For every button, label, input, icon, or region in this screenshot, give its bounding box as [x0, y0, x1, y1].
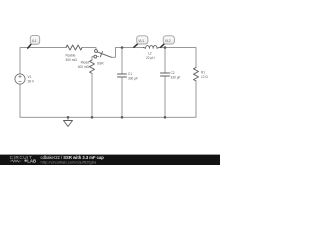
svg-text:Rcable: Rcable	[66, 54, 76, 58]
wire top left from V1 to Rcable	[20, 48, 66, 74]
junction node C1 bottom	[121, 116, 124, 119]
switch SSR blade	[97, 52, 111, 57]
svg-text:330 µF: 330 µF	[171, 76, 181, 80]
wire V1 bottom to rail	[19, 84, 21, 117]
switch SSR throw-2 stub	[97, 56, 99, 58]
footer bar	[0, 155, 220, 165]
voltage source V1	[15, 74, 25, 84]
svg-text:400 mΩ: 400 mΩ	[78, 65, 90, 69]
wire C2 branch bottom	[164, 76, 166, 117]
wire R1 to bottom rail	[195, 81, 197, 117]
switch SSR actuator tick	[100, 52, 102, 57]
wire C1 branch top	[121, 48, 123, 75]
svg-text:http://circuitlab.com/c/juf52f: http://circuitlab.com/c/juf52fgba	[41, 160, 98, 165]
svg-text:R1: R1	[201, 71, 205, 75]
wire Rcable to switch	[82, 48, 96, 50]
switch SSR throw-2 terminal	[94, 55, 97, 58]
V1 plus sign	[19, 75, 21, 77]
svg-text:330 µF: 330 µF	[128, 77, 138, 81]
wire C1 branch bottom	[121, 77, 123, 117]
V1 minus sign	[19, 80, 21, 82]
capacitor C1	[118, 74, 127, 77]
junction node C2 bottom	[164, 116, 167, 119]
capacitor C2	[161, 73, 170, 76]
svg-text:C2: C2	[171, 71, 175, 75]
resistor R1	[194, 68, 199, 81]
logo spark	[25, 160, 27, 162]
probe VL2 box	[163, 36, 174, 44]
wire Rload to bottom rail	[91, 73, 93, 117]
wire C2 branch top	[164, 48, 166, 74]
wire L2 to top right corner and down to R1	[159, 48, 196, 68]
svg-text:300 mΩ: 300 mΩ	[66, 58, 78, 62]
probe IL1 box	[30, 35, 39, 44]
junction node C2 top	[164, 46, 167, 49]
junction node Rload bottom	[91, 116, 94, 119]
wire Rload from throw-2 down	[92, 57, 94, 60]
resistor Rload	[90, 60, 95, 73]
probe VL1 box	[137, 36, 148, 44]
svg-text:SSR: SSR	[97, 62, 104, 66]
svg-text:VL2: VL2	[165, 39, 171, 43]
svg-text:V1: V1	[28, 75, 32, 79]
switch SSR terminal top	[95, 50, 98, 53]
junction node C1 top	[121, 46, 124, 49]
junction node ground	[67, 116, 70, 119]
probe VL2 tail	[160, 44, 164, 48]
svg-text:28 V: 28 V	[28, 80, 35, 84]
svg-text:IL1: IL1	[32, 39, 37, 43]
wire switch common up to top rail	[112, 48, 144, 58]
bottom rail	[20, 116, 196, 118]
logo resistor squiggle	[10, 160, 21, 162]
svg-text:VL1: VL1	[138, 39, 144, 43]
probe IL1 tail	[27, 44, 31, 49]
resistor Rcable	[66, 45, 82, 50]
svg-text:12 Ω: 12 Ω	[201, 75, 208, 79]
ground triangle	[64, 121, 73, 127]
svg-text:22 µH: 22 µH	[146, 56, 155, 60]
svg-text:Rload: Rload	[81, 61, 90, 65]
svg-text:C1: C1	[128, 72, 132, 76]
ground stem	[67, 117, 69, 120]
probe VL1 tail	[133, 44, 138, 48]
inductor L2	[143, 46, 159, 49]
svg-text:LAB: LAB	[27, 159, 36, 164]
